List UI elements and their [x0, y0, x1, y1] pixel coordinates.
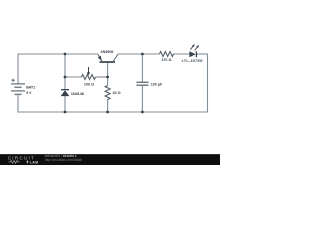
svg-text:100 Ω: 100 Ω — [84, 82, 94, 86]
svg-text:100 µF: 100 µF — [151, 82, 163, 86]
svg-text:2N3906: 2N3906 — [101, 50, 114, 54]
svg-text:LAB: LAB — [30, 160, 39, 164]
svg-text:1N4148: 1N4148 — [71, 92, 84, 96]
svg-text:http://circuitlab.com/6ta66r: http://circuitlab.com/6ta66r — [45, 158, 83, 162]
svg-text:BAT1: BAT1 — [26, 85, 35, 89]
svg-text:33 Ω: 33 Ω — [113, 91, 121, 95]
svg-text:LTL-307EE: LTL-307EE — [182, 59, 204, 63]
svg-text:470 Ω: 470 Ω — [161, 58, 171, 62]
svg-text:9 V: 9 V — [26, 91, 32, 95]
